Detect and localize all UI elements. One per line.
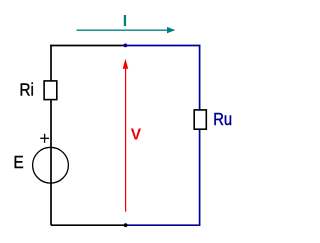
svg-text:Ru: Ru: [213, 110, 232, 129]
svg-text:E: E: [13, 152, 23, 172]
svg-text:V: V: [131, 127, 142, 144]
svg-text:Ri: Ri: [19, 80, 34, 100]
svg-text:I: I: [123, 13, 127, 30]
